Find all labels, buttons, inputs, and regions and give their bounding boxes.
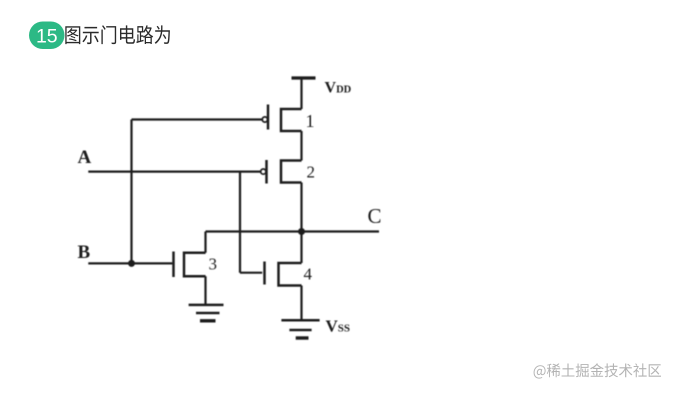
junction dot at output node	[298, 228, 305, 235]
svg-text:2: 2	[307, 163, 316, 182]
wire transistor 4 source down to VSS	[300, 286, 302, 321]
watermark 稀土掘金技术社区	[534, 363, 661, 378]
question number badge 15	[29, 22, 65, 50]
transistor 2 (PMOS) channel bracket	[281, 161, 302, 183]
svg-text:C: C	[368, 204, 382, 228]
wire B-net vertical (B to gate-1 wire)	[130, 120, 132, 264]
svg-text:3: 3	[209, 255, 218, 274]
wire B-net to gate of transistor 1 (horizontal)	[132, 118, 263, 120]
question text 图示门电路为	[65, 25, 170, 44]
wire output node C (horizontal)	[206, 230, 380, 232]
ground symbol (transistor 3 source)	[189, 305, 224, 321]
transistor 1 (PMOS) channel bracket	[281, 109, 302, 131]
svg-text:VSS: VSS	[326, 317, 351, 336]
wire transistor 3 source down to ground	[204, 276, 206, 305]
transistor 3 (NMOS) channel bracket	[184, 253, 206, 276]
wire output node down to transistor 4 drain	[300, 232, 302, 264]
transistor 1 gate bubble	[262, 117, 267, 122]
svg-text:15: 15	[36, 26, 58, 48]
svg-text:1: 1	[306, 111, 315, 131]
wire transistor 2 source down to output node	[300, 183, 302, 232]
wire input B to gate of transistor 3	[88, 262, 172, 264]
transistor 3 gate bar	[172, 252, 175, 278]
junction dot at B-net	[128, 260, 135, 267]
transistor 4 (NMOS) channel bracket	[279, 263, 302, 286]
transistor 2 gate bubble	[261, 169, 266, 174]
wire VDD bar to transistor 1 drain	[300, 79, 302, 109]
svg-text:B: B	[78, 242, 91, 263]
power VDD symbol (top bar)	[292, 76, 316, 79]
transistor 4 gate bar	[263, 262, 266, 285]
svg-text:VDD: VDD	[325, 79, 352, 96]
wire A-net vertical down to gate of transistor 4	[239, 172, 241, 273]
wire transistor 1 source to transistor 2 drain	[300, 131, 302, 161]
wire A-net horizontal to gate bar of transistor 4	[240, 272, 262, 274]
power VSS ground symbol	[281, 320, 319, 338]
wire transistor 3 drain up to output wire	[204, 232, 206, 253]
transistor 1 gate bar	[267, 105, 270, 130]
svg-text:4: 4	[304, 265, 313, 284]
wire input A to gate of transistor 2	[88, 171, 260, 173]
transistor 2 gate bar	[265, 160, 268, 184]
svg-text:A: A	[78, 147, 92, 168]
